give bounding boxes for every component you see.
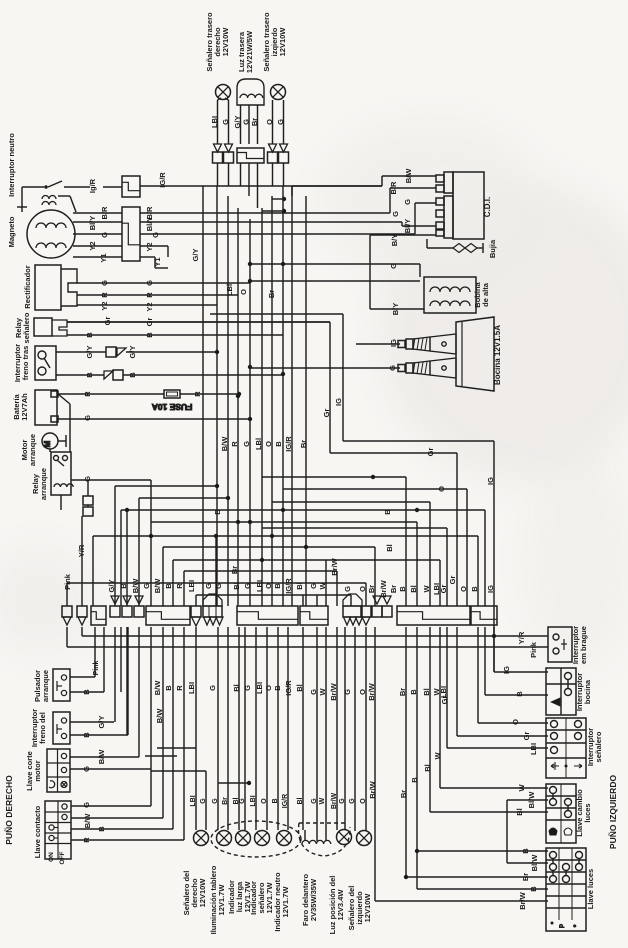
svg-text:LBI: LBI xyxy=(187,682,196,694)
svg-text:O: O xyxy=(264,583,273,589)
svg-text:B: B xyxy=(145,332,154,338)
svg-text:Pink: Pink xyxy=(529,641,538,658)
svg-text:B: B xyxy=(409,689,418,695)
svg-text:12V1.7W: 12V1.7W xyxy=(281,886,290,918)
svg-text:B: B xyxy=(128,372,137,378)
svg-text:Gr: Gr xyxy=(440,696,449,705)
svg-text:B: B xyxy=(85,332,94,338)
svg-text:Bl/Y: Bl/Y xyxy=(403,219,412,234)
svg-text:G: G xyxy=(82,802,91,808)
svg-text:O: O xyxy=(358,586,367,592)
svg-text:Rectificador: Rectificador xyxy=(23,265,32,308)
svg-text:B/Y: B/Y xyxy=(390,234,399,247)
svg-text:G: G xyxy=(388,365,397,371)
svg-text:G: G xyxy=(243,583,252,589)
svg-text:R: R xyxy=(145,292,154,298)
svg-text:Y2: Y2 xyxy=(145,302,154,311)
svg-text:B/W: B/W xyxy=(131,578,140,594)
svg-text:B: B xyxy=(164,583,173,589)
svg-text:IG: IG xyxy=(334,398,343,406)
svg-text:B: B xyxy=(82,732,91,738)
svg-text:PUÑO DERECHO: PUÑO DERECHO xyxy=(4,775,14,845)
svg-text:Bl: Bl xyxy=(409,585,418,593)
svg-text:señalero: señalero xyxy=(594,731,603,762)
svg-text:G: G xyxy=(145,280,154,286)
svg-text:W: W xyxy=(318,582,327,590)
svg-text:12V21W/5W: 12V21W/5W xyxy=(245,30,254,73)
svg-text:G: G xyxy=(82,766,91,772)
svg-text:Pink: Pink xyxy=(63,573,72,590)
svg-text:Interruptor neutro: Interruptor neutro xyxy=(7,133,16,197)
svg-text:R: R xyxy=(83,391,92,397)
svg-text:Bujia: Bujia xyxy=(488,239,497,258)
svg-text:B: B xyxy=(470,586,479,592)
svg-text:B/W: B/W xyxy=(83,813,92,829)
svg-text:arranque: arranque xyxy=(28,434,37,466)
svg-text:Pink: Pink xyxy=(93,661,100,676)
svg-text:Br: Br xyxy=(389,585,398,593)
svg-text:G: G xyxy=(343,586,352,592)
svg-text:G: G xyxy=(309,689,318,695)
svg-text:IG/R: IG/R xyxy=(284,680,293,696)
svg-text:B/R: B/R xyxy=(389,181,398,195)
svg-text:B: B xyxy=(273,685,282,691)
svg-text:Bl: Bl xyxy=(515,808,524,816)
svg-text:R: R xyxy=(175,685,184,691)
svg-text:G: G xyxy=(204,583,213,589)
svg-text:Bl: Bl xyxy=(297,797,304,804)
svg-text:Bl: Bl xyxy=(385,544,394,552)
svg-text:LBI: LBI xyxy=(190,795,197,806)
svg-text:Y2: Y2 xyxy=(88,241,97,250)
svg-text:O: O xyxy=(511,719,520,725)
svg-text:B: B xyxy=(213,509,222,515)
svg-text:O: O xyxy=(239,289,248,295)
svg-text:freno tras: freno tras xyxy=(21,346,30,381)
svg-text:R: R xyxy=(82,837,91,843)
svg-text:G: G xyxy=(276,119,285,125)
svg-text:Bl/W: Bl/W xyxy=(527,791,536,809)
svg-text:Llave contacto: Llave contacto xyxy=(33,805,42,858)
svg-text:bocina: bocina xyxy=(583,679,592,704)
svg-text:Br/W: Br/W xyxy=(518,891,527,909)
svg-text:B: B xyxy=(85,372,94,378)
svg-text:O: O xyxy=(264,685,273,691)
svg-text:R: R xyxy=(175,583,184,589)
svg-text:LBI: LBI xyxy=(255,580,264,592)
svg-text:IG: IG xyxy=(389,339,398,347)
svg-text:R: R xyxy=(193,391,202,397)
svg-text:W: W xyxy=(433,752,442,760)
svg-text:Br: Br xyxy=(299,440,308,448)
svg-text:B: B xyxy=(515,691,524,697)
svg-text:B/W: B/W xyxy=(153,680,162,696)
svg-text:Bl: Bl xyxy=(295,582,304,590)
svg-text:G: G xyxy=(403,199,412,205)
svg-text:G/Y: G/Y xyxy=(97,716,106,729)
svg-text:W: W xyxy=(319,797,326,804)
svg-text:W: W xyxy=(517,784,526,792)
svg-text:LBl: LBl xyxy=(225,284,234,296)
svg-text:W: W xyxy=(422,585,431,593)
svg-text:LBI: LBI xyxy=(255,682,264,694)
svg-text:IG: IG xyxy=(502,666,511,674)
svg-text:motor: motor xyxy=(33,760,42,781)
svg-text:G: G xyxy=(208,685,217,691)
svg-text:señalero: señalero xyxy=(22,312,31,343)
svg-text:Bl: Bl xyxy=(423,764,432,772)
svg-text:Br: Br xyxy=(399,790,408,798)
svg-text:de alta: de alta xyxy=(481,282,490,307)
svg-text:G: G xyxy=(343,689,352,695)
svg-text:Llave luces: Llave luces xyxy=(586,869,595,909)
svg-text:B: B xyxy=(398,586,407,592)
svg-text:LBI: LBI xyxy=(210,116,219,128)
svg-text:B: B xyxy=(521,848,530,854)
svg-text:Gr: Gr xyxy=(426,448,435,457)
svg-text:O: O xyxy=(265,119,274,125)
svg-text:B/W: B/W xyxy=(155,708,164,724)
svg-text:Gr: Gr xyxy=(322,409,331,418)
svg-text:G: G xyxy=(100,232,109,238)
svg-text:Br/W: Br/W xyxy=(330,557,339,575)
svg-text:IG/R: IG/R xyxy=(284,578,293,594)
svg-text:Y/R: Y/R xyxy=(77,544,86,557)
svg-text:B/W: B/W xyxy=(97,749,106,765)
svg-text:Br/W: Br/W xyxy=(331,792,338,809)
svg-text:G/Y: G/Y xyxy=(128,346,137,359)
svg-text:B: B xyxy=(274,441,283,447)
svg-text:Y1: Y1 xyxy=(153,257,162,266)
svg-text:Bl: Bl xyxy=(232,684,241,692)
svg-text:Y/R: Y/R xyxy=(517,631,526,644)
svg-text:B: B xyxy=(410,777,419,783)
svg-text:G/Y: G/Y xyxy=(191,249,200,262)
svg-text:G: G xyxy=(242,441,251,447)
svg-text:W: W xyxy=(318,688,327,696)
svg-text:Br/W: Br/W xyxy=(329,682,338,700)
svg-text:Br/W: Br/W xyxy=(368,780,377,798)
svg-text:G: G xyxy=(83,476,92,482)
svg-text:G/Y: G/Y xyxy=(85,346,94,359)
svg-text:12V10W: 12V10W xyxy=(278,27,287,57)
svg-text:B/W: B/W xyxy=(404,168,413,184)
svg-text:G: G xyxy=(142,583,151,589)
svg-text:FUSE 10A: FUSE 10A xyxy=(152,402,193,412)
svg-text:Br/W: Br/W xyxy=(379,579,388,597)
svg-text:Y1: Y1 xyxy=(99,253,108,262)
svg-text:B/W: B/W xyxy=(220,436,229,452)
svg-text:G: G xyxy=(339,798,346,804)
svg-text:Bl: Bl xyxy=(232,582,241,590)
svg-text:Gr: Gr xyxy=(145,318,154,327)
svg-text:B: B xyxy=(97,826,106,832)
svg-text:B: B xyxy=(119,583,128,589)
svg-text:luces: luces xyxy=(583,803,592,822)
svg-text:OFF: OFF xyxy=(59,851,66,864)
svg-text:G: G xyxy=(200,798,207,804)
svg-text:freno del: freno del xyxy=(38,712,47,744)
svg-text:B: B xyxy=(383,509,392,515)
svg-text:G: G xyxy=(151,232,160,238)
svg-text:B: B xyxy=(273,583,282,589)
svg-text:IG/R: IG/R xyxy=(282,794,289,808)
svg-text:O: O xyxy=(264,441,273,447)
svg-text:R: R xyxy=(230,441,239,447)
svg-text:Bl: Bl xyxy=(295,684,304,692)
svg-text:LBl: LBl xyxy=(254,438,263,450)
svg-text:arranque: arranque xyxy=(39,468,48,500)
svg-text:G: G xyxy=(214,583,223,589)
svg-text:M: M xyxy=(43,440,52,447)
svg-text:O: O xyxy=(437,486,446,492)
svg-text:Gr: Gr xyxy=(522,732,531,741)
svg-text:Gr: Gr xyxy=(439,585,448,594)
svg-text:Br/W: Br/W xyxy=(367,682,376,700)
svg-text:O: O xyxy=(358,689,367,695)
svg-text:Gr: Gr xyxy=(448,576,457,585)
svg-text:ON: ON xyxy=(48,852,55,862)
svg-text:12V10W: 12V10W xyxy=(221,27,230,57)
svg-text:O: O xyxy=(360,798,367,804)
svg-text:IG: IG xyxy=(486,585,495,593)
svg-text:G: G xyxy=(221,119,230,125)
svg-text:C.D.I.: C.D.I. xyxy=(483,197,492,217)
svg-text:Bl: Bl xyxy=(422,688,431,696)
svg-text:LBI: LBI xyxy=(187,580,196,592)
svg-text:IG: IG xyxy=(486,477,495,485)
svg-text:Br: Br xyxy=(250,118,259,126)
svg-text:Bl/Y: Bl/Y xyxy=(145,217,154,232)
svg-text:R: R xyxy=(100,292,109,298)
svg-text:G: G xyxy=(243,685,252,691)
svg-text:Br: Br xyxy=(222,797,229,805)
svg-text:G: G xyxy=(389,263,398,269)
svg-text:B/Y: B/Y xyxy=(391,303,400,316)
svg-text:Gr: Gr xyxy=(103,317,112,326)
svg-text:B: B xyxy=(272,798,279,803)
svg-text:B/R: B/R xyxy=(100,206,109,220)
svg-text:em brague: em brague xyxy=(579,626,588,664)
svg-text:12V10W: 12V10W xyxy=(363,893,372,923)
svg-text:G: G xyxy=(349,798,356,804)
svg-text:Y2: Y2 xyxy=(145,242,154,251)
svg-text:12V1.7W: 12V1.7W xyxy=(217,884,226,916)
svg-text:G: G xyxy=(309,583,318,589)
svg-text:Magneto: Magneto xyxy=(7,216,16,247)
svg-text:Br: Br xyxy=(367,585,376,593)
svg-text:Ig/R: Ig/R xyxy=(88,178,97,193)
svg-text:G: G xyxy=(83,415,92,421)
svg-text:LBI: LBI xyxy=(529,743,538,755)
svg-text:P: P xyxy=(560,924,566,928)
svg-text:G: G xyxy=(311,798,318,804)
svg-text:LBI: LBI xyxy=(250,795,257,806)
svg-text:12V3.4W: 12V3.4W xyxy=(336,889,345,921)
svg-text:G: G xyxy=(212,798,219,804)
svg-text:B: B xyxy=(82,689,91,695)
svg-text:Y2: Y2 xyxy=(100,301,109,310)
svg-text:2V35W/35W: 2V35W/35W xyxy=(309,878,318,921)
svg-text:12V7Ah: 12V7Ah xyxy=(20,393,29,421)
svg-text:12V10W: 12V10W xyxy=(198,878,207,908)
svg-text:IG/R: IG/R xyxy=(284,436,293,452)
svg-text:arranque: arranque xyxy=(41,670,50,702)
svg-text:Bl/W: Bl/W xyxy=(530,854,539,872)
svg-text:G: G xyxy=(239,798,246,804)
svg-text:O: O xyxy=(261,798,268,804)
svg-text:IG/R: IG/R xyxy=(158,172,167,188)
svg-text:Bl/Y: Bl/Y xyxy=(88,216,97,231)
svg-text:Br: Br xyxy=(398,688,407,696)
svg-text:O: O xyxy=(459,586,468,592)
svg-text:G/Y: G/Y xyxy=(107,580,116,593)
svg-text:B: B xyxy=(164,685,173,691)
svg-text:Br: Br xyxy=(267,290,276,298)
svg-text:PUÑO IZQUIERDO: PUÑO IZQUIERDO xyxy=(608,775,618,850)
svg-text:G: G xyxy=(391,211,400,217)
svg-text:Br: Br xyxy=(521,873,530,881)
svg-text:Br: Br xyxy=(230,566,239,574)
svg-text:G: G xyxy=(100,280,109,286)
svg-text:B/W: B/W xyxy=(153,578,162,594)
svg-text:B: B xyxy=(529,886,538,892)
svg-text:Bocina 12V1.5A: Bocina 12V1.5A xyxy=(493,325,502,385)
